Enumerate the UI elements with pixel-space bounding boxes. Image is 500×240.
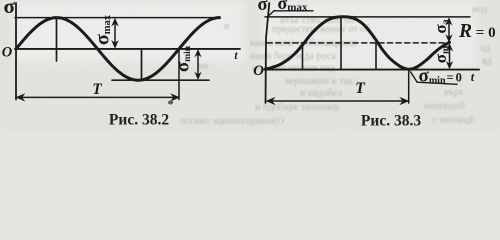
figure 38.3: sigma_max level line	[265, 16, 470, 18]
svg-text:вершавши и так: вершавши и так	[285, 76, 353, 87]
figure 38.3: right boundary line at full period T	[408, 70, 410, 103]
svg-text:од: од	[480, 43, 490, 54]
svg-text:яд: яд	[482, 56, 492, 67]
figure 38.3: dashed mean-stress midline	[267, 42, 448, 44]
figure 38.3: sigma_m mean-stress arrow (double-headed)	[446, 43, 453, 69]
svg-text:T: T	[92, 81, 102, 98]
figure 38.2: vertical tick at curve peak (T/4)	[56, 18, 58, 61]
figure 38.2: sigma_min dimension arrow (double-headed)	[194, 49, 201, 80]
figure 38.2: sigma axis (vertical)	[15, 3, 17, 100]
svg-text:T: T	[355, 80, 366, 97]
svg-text:пссвип эциноподоман(О: пссвип эциноподоман(О	[180, 116, 284, 127]
svg-text:иноподоб: иноподоб	[424, 101, 465, 112]
figure 38.3: vertical guide at curve peak	[340, 17, 342, 69]
figure 38.3: period T dimension arrow (double-headed)	[266, 97, 410, 105]
figure 38.2: sigma_min level line	[112, 79, 209, 81]
svg-text:Рис. 38.3: Рис. 38.3	[361, 112, 421, 129]
svg-text:Рис. 38.2: Рис. 38.2	[109, 111, 169, 128]
figure 38.3: underline of sigma_max label	[274, 10, 313, 12]
figure 38.3: leader from curve zero-touch to sigma_min label	[411, 72, 418, 82]
figure 38.2: sigma_max dimension arrow (double-headed)	[111, 18, 119, 49]
svg-text:и пдобире запненир: и пдобире запненир	[255, 102, 340, 113]
figure 38.3: underline of sigma_min = 0 label	[417, 82, 457, 84]
figure 38.2: vertical tick at curve minimum (3T/4)	[141, 49, 143, 80]
figure 38.2: sigma_max level line	[15, 17, 220, 19]
figure 38.2: sinusoidal stress curve	[16, 18, 220, 81]
figure 38.3: vertical guide at falling midline crossing	[375, 43, 377, 70]
figure 38.2: right boundary line at full period T	[178, 49, 180, 100]
svg-text:σ: σ	[3, 0, 15, 18]
svg-text:върх: върх	[444, 87, 464, 98]
svg-text:σ: σ	[257, 0, 267, 15]
figure 38.3: sigma axis (vertical, slightly skewed)	[266, 3, 270, 103]
svg-text:t: t	[471, 70, 475, 84]
figure 38.3: leader from sigma_max label to level line	[268, 11, 275, 17]
svg-text:O: O	[253, 63, 264, 79]
svg-text:σmax: σmax	[278, 0, 308, 14]
figure 38.2: t axis (horizontal)	[15, 48, 240, 50]
svg-text:ви: ви	[198, 61, 209, 72]
figure 38.3: vertical guide at rising midline crossing	[302, 43, 304, 70]
svg-text:иод: иод	[472, 4, 487, 15]
figure 38.2: stray ink blob above caption	[168, 101, 173, 105]
svg-text:R = 0: R = 0	[458, 21, 496, 42]
svg-text:и: и	[224, 21, 230, 32]
figure 38.3: sigma_a amplitude arrow (double-headed)	[445, 17, 452, 43]
svg-text:O: O	[2, 45, 13, 61]
svg-text:с типовцЕ: с типовцЕ	[432, 115, 475, 126]
figure 38.2: period T dimension arrow (double-headed)	[15, 93, 180, 101]
figure 38.3: t axis (horizontal)	[265, 69, 480, 71]
svg-text:и надобел: и надобел	[300, 88, 342, 99]
figure 38.3: pulsating stress curve	[266, 17, 450, 70]
